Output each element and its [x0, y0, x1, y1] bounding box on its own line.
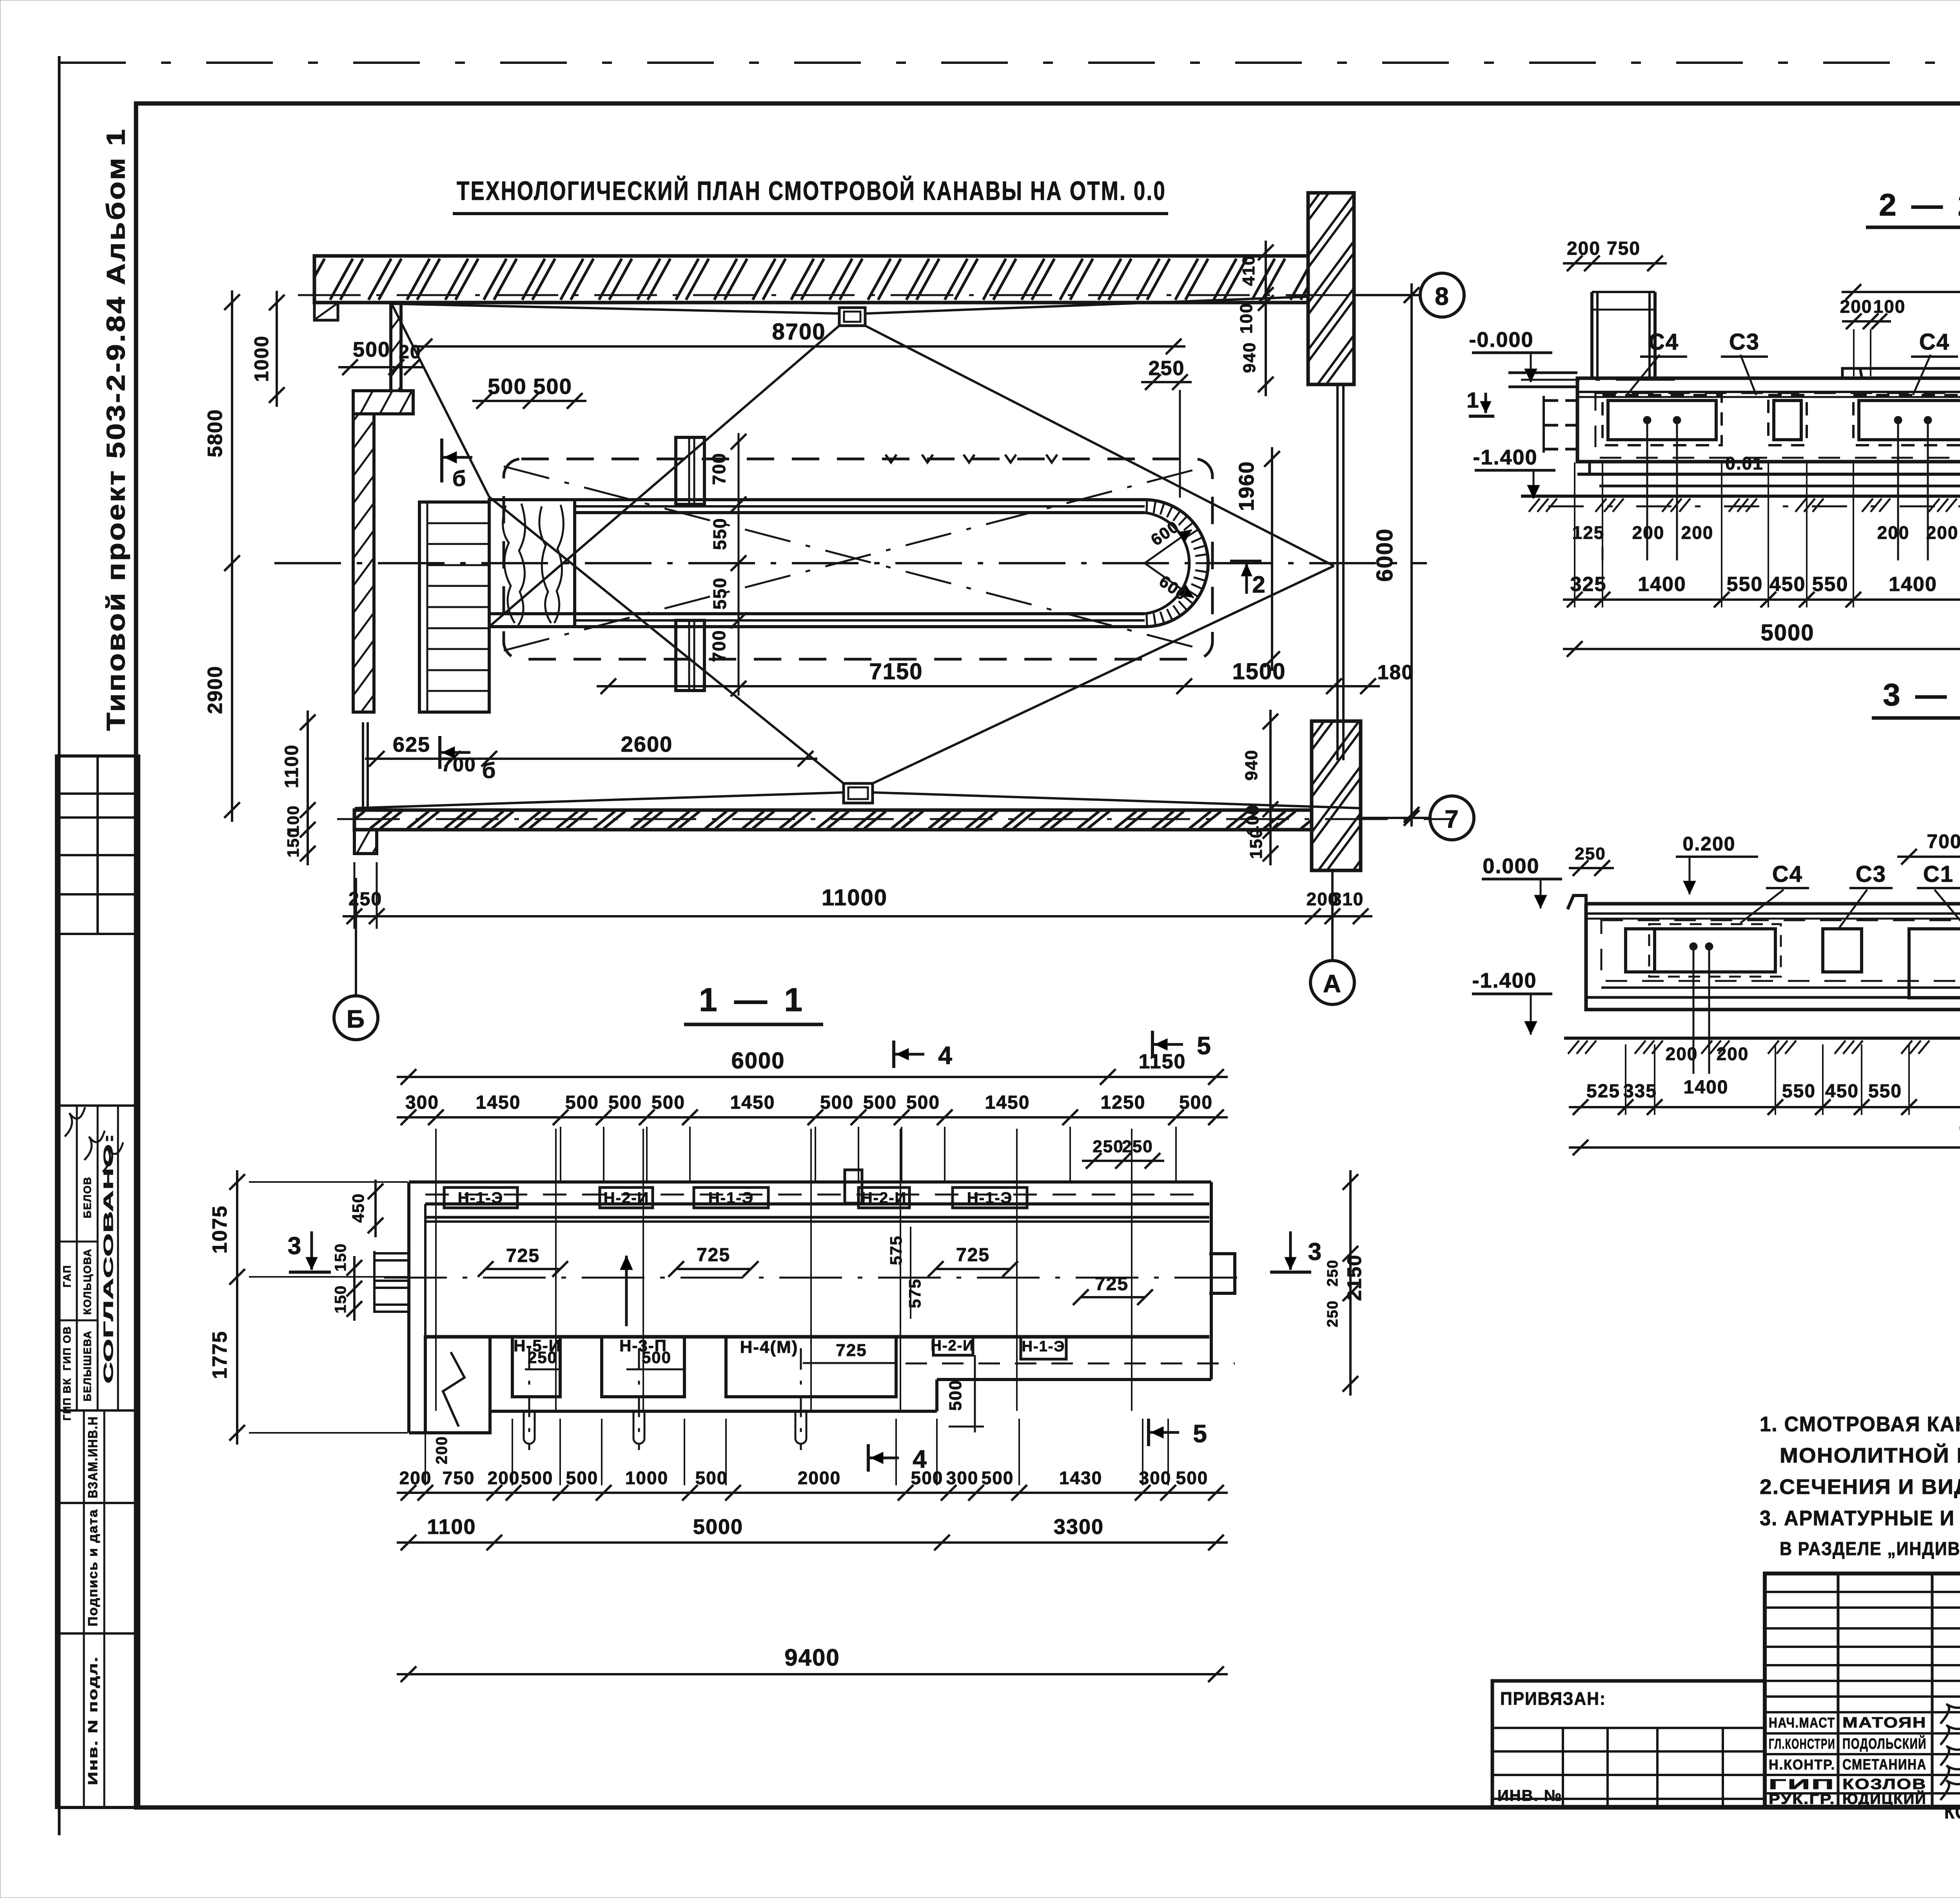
- svg-text:410: 410: [1239, 255, 1258, 286]
- section 3-3 opening 1400: [1655, 929, 1775, 972]
- svg-text:ГИП: ГИП: [1769, 1776, 1835, 1792]
- svg-text:200: 200: [399, 1468, 432, 1488]
- svg-text:550: 550: [1812, 573, 1849, 596]
- section 1-1 mid pipe: [845, 1170, 862, 1203]
- svg-text:Н-1-Э: Н-1-Э: [1022, 1338, 1065, 1355]
- svg-text:150: 150: [332, 1243, 349, 1272]
- svg-text:1150: 1150: [1139, 1050, 1186, 1073]
- svg-text:НАЧ.МАСТ: НАЧ.МАСТ: [1769, 1715, 1835, 1731]
- svg-text:1 — 1: 1 — 1: [699, 981, 806, 1018]
- svg-text:-1.400: -1.400: [1472, 969, 1537, 992]
- svg-text:МОНОЛИТНОЙ ИЗ БЕТОНА М 200.: МОНОЛИТНОЙ ИЗ БЕТОНА М 200.: [1780, 1443, 1960, 1467]
- section 1-1 dims 250 250: [1082, 1160, 1164, 1162]
- svg-text:500: 500: [1176, 1468, 1209, 1488]
- svg-text:ТЕХНОЛОГИЧЕСКИЙ ПЛАН СМОТРОВ: ТЕХНОЛОГИЧЕСКИЙ ПЛАН СМОТРОВОЙ КАНАВЫ НА…: [457, 176, 1166, 206]
- svg-text:200: 200: [433, 1436, 450, 1465]
- svg-text:625: 625: [393, 733, 430, 756]
- svg-text:Н.КОНТР.: Н.КОНТР.: [1769, 1757, 1835, 1773]
- plan: v-marks on dashed line: [886, 455, 897, 462]
- svg-text:725: 725: [506, 1245, 540, 1266]
- left strip signatures: [65, 1107, 85, 1137]
- plan: dashed pit outline: [504, 459, 1212, 659]
- section 2-2 body outline: [1577, 378, 1960, 462]
- svg-text:2.СЕЧЕНИЯ И ВИДЫ 4-4 ÷ 10: 2.СЕЧЕНИЯ И ВИДЫ 4-4 ÷ 10 -10 ДАНЫ НА ЛИ…: [1760, 1475, 1960, 1499]
- svg-text:0.000: 0.000: [1483, 854, 1539, 878]
- section 1-1 left dims 450/150/150: [374, 1180, 377, 1237]
- section 3-3 witness lines: [1625, 1044, 1626, 1115]
- svg-text:100: 100: [1873, 296, 1906, 317]
- svg-text:1450: 1450: [730, 1092, 775, 1113]
- section 1-1 hanging block H-3-P: [602, 1337, 684, 1397]
- svg-text:5800: 5800: [204, 409, 227, 457]
- svg-text:2900: 2900: [204, 665, 227, 714]
- section 1-1 left stub pipes: [373, 1252, 409, 1254]
- plan: section marker b top: [440, 439, 443, 482]
- section 1-1 marker 4 bottom: [867, 1444, 870, 1472]
- svg-text:200: 200: [1567, 238, 1601, 259]
- section 3-3 dim 250 left: [1569, 867, 1614, 869]
- svg-text:ПОДОЛЬСКИЙ: ПОДОЛЬСКИЙ: [1842, 1735, 1927, 1752]
- svg-text:2 — 2: 2 — 2: [1879, 187, 1960, 222]
- svg-text:0.01: 0.01: [1725, 453, 1764, 473]
- section 1-1 hanging block H-5-I: [512, 1337, 560, 1397]
- svg-text:450: 450: [1825, 1081, 1859, 1102]
- plan: left dims 1100/100/150: [307, 711, 309, 865]
- sheet left edge: [58, 56, 61, 1835]
- svg-text:500: 500: [695, 1468, 728, 1488]
- svg-text:С4: С4: [1772, 861, 1803, 887]
- svg-text:Подпись и дата: Подпись и дата: [85, 1509, 100, 1626]
- svg-text:Н-1-Э: Н-1-Э: [967, 1189, 1013, 1207]
- svg-text:1450: 1450: [985, 1092, 1030, 1113]
- svg-text:5: 5: [1193, 1419, 1208, 1448]
- section 3-3 anchor dots: [1690, 943, 1697, 950]
- svg-text:575: 575: [887, 1235, 905, 1265]
- svg-text:ГАП: ГАП: [61, 1265, 73, 1287]
- svg-text:1000: 1000: [250, 335, 272, 382]
- svg-text:725: 725: [697, 1245, 730, 1265]
- plan: right double line wall gap: [1336, 384, 1339, 760]
- section 1-1 marker 3 left: [289, 1271, 331, 1274]
- section 3-3 opening 450: [1823, 929, 1862, 972]
- svg-text:5000: 5000: [1760, 620, 1814, 645]
- section 1-1 bottom dim row 1100/5000/3300: [397, 1541, 1228, 1544]
- plan: niche dimension line 700/550/550/700: [738, 433, 740, 696]
- section 2-2 base slab: [1588, 462, 1591, 474]
- svg-text:Инв. N подл.: Инв. N подл.: [85, 1656, 100, 1785]
- section 1-1 marker 5 bottom: [1147, 1419, 1150, 1446]
- svg-text:180: 180: [1377, 661, 1414, 684]
- svg-text:Б: Б: [347, 1005, 365, 1033]
- section 1-1 right notch: [1209, 1254, 1235, 1293]
- section 1-1 left dims 1075/1775: [236, 1170, 238, 1445]
- svg-text:200: 200: [1877, 522, 1910, 543]
- top dash-dot border: [59, 62, 1960, 64]
- svg-text:200: 200: [1632, 522, 1665, 543]
- section 3-3 big opening 1950: [1909, 929, 1960, 998]
- svg-text:С3: С3: [1856, 861, 1886, 887]
- left strip bottom cells: [56, 1502, 139, 1504]
- svg-text:3. АРМАТУРНЫЕ И ЗАКЛАДНЫЕ ИЗ: 3. АРМАТУРНЫЕ И ЗАКЛАДНЫЕ ИЗДЕЛИЯ ДАНЫ В…: [1760, 1506, 1960, 1530]
- svg-text:1. СМОТРОВАЯ КАНАВА ДЛЯ РАБ: 1. СМОТРОВАЯ КАНАВА ДЛЯ РАБОТ ТИПА ЕО - …: [1760, 1412, 1960, 1436]
- svg-text:1500: 1500: [1232, 659, 1286, 684]
- svg-text:2150: 2150: [1343, 1254, 1365, 1301]
- plan: left door stub: [362, 722, 364, 807]
- section 1-1 centerline: [384, 1277, 1247, 1279]
- section 3-3 body outline: [1586, 894, 1960, 1010]
- svg-text:550: 550: [710, 577, 730, 610]
- section 1-1 top dim row2: [397, 1116, 1228, 1118]
- plan: channel centerline: [274, 562, 1427, 564]
- plan: grid circle B: [334, 996, 378, 1040]
- svg-text:500: 500: [820, 1092, 854, 1113]
- plan: grid circle 8: [1420, 273, 1464, 317]
- svg-text:500: 500: [642, 1348, 671, 1367]
- svg-text:4: 4: [938, 1041, 953, 1070]
- svg-text:-1.400: -1.400: [1473, 446, 1537, 469]
- svg-text:750: 750: [443, 1468, 475, 1488]
- svg-text:525: 525: [1586, 1081, 1620, 1102]
- section 2-2 top dims 200 750: [1563, 262, 1667, 265]
- plan: left wall top L-piece: [353, 303, 413, 414]
- svg-text:725: 725: [836, 1341, 867, 1360]
- section 1-1 top blocks: [444, 1187, 517, 1208]
- svg-text:ЮДИЦКИЙ: ЮДИЦКИЙ: [1842, 1790, 1927, 1807]
- svg-text:550: 550: [710, 518, 730, 550]
- plan: top niche 700: [676, 437, 704, 504]
- plan: right small dims 410/100/940: [1265, 241, 1267, 396]
- svg-text:500: 500: [488, 374, 526, 399]
- svg-text:125: 125: [1572, 522, 1605, 543]
- plan: pit channel outer walls: [489, 498, 1145, 501]
- section 3-3 left top hook: [1568, 896, 1586, 920]
- svg-text:С4: С4: [1648, 329, 1679, 355]
- section 2-2 left floor lines: [1508, 372, 1577, 374]
- svg-text:РУК.ГР.: РУК.ГР.: [1769, 1791, 1835, 1807]
- plan: dimension 250 right: [1141, 381, 1192, 383]
- section 1-1 marker 3 right: [1270, 1271, 1311, 1274]
- svg-text:700: 700: [441, 754, 476, 776]
- svg-text:500: 500: [566, 1468, 599, 1488]
- section 2-2 dim 5900: [1842, 291, 1960, 293]
- svg-text:Н-1-Э: Н-1-Э: [708, 1189, 754, 1207]
- svg-text:С3: С3: [1729, 329, 1760, 355]
- svg-text:4: 4: [913, 1445, 927, 1473]
- section 2-2 left embed symbol: [1543, 399, 1577, 402]
- svg-text:500: 500: [906, 1092, 940, 1113]
- section 1-1 dashed top line: [425, 1194, 1209, 1196]
- section 3-3 inner dashed liner: [1601, 920, 1960, 981]
- plan: top wall left step: [314, 303, 338, 320]
- svg-text:200: 200: [1717, 1044, 1749, 1064]
- svg-text:9400: 9400: [784, 1644, 840, 1671]
- svg-text:КОЗЛОВ: КОЗЛОВ: [1842, 1776, 1927, 1793]
- svg-text:СМЕТАНИНА: СМЕТАНИНА: [1842, 1757, 1927, 1773]
- section 2-2 top step mid: [1842, 368, 1862, 378]
- svg-text:1400: 1400: [1638, 573, 1686, 596]
- svg-text:1775: 1775: [209, 1331, 231, 1379]
- title block main frame: [1765, 1574, 1960, 1807]
- svg-text:1100: 1100: [281, 744, 302, 788]
- svg-text:500: 500: [608, 1092, 642, 1113]
- svg-text:Н-4(М): Н-4(М): [740, 1338, 799, 1357]
- plan: top-right pillar hatched: [1308, 193, 1354, 384]
- svg-text:8700: 8700: [772, 319, 826, 344]
- svg-text:БЕЛЫШЕВА: БЕЛЫШЕВА: [82, 1330, 93, 1401]
- privyazan table: [1492, 1681, 1765, 1807]
- section 3-3 ground line and hatch: [1564, 1037, 1960, 1040]
- plan: dimension 500/20 top-left: [338, 366, 424, 368]
- svg-text:750: 750: [1607, 238, 1641, 259]
- left strip table: [56, 756, 139, 1807]
- section 3-3 dims 700/100/200/475/1025: [1897, 856, 1960, 858]
- section 1-1 marker 5 top: [1151, 1031, 1154, 1058]
- svg-text:20: 20: [399, 342, 421, 363]
- section 1-1 body outline: [409, 1180, 1211, 1184]
- svg-text:ГИП ОВ: ГИП ОВ: [61, 1326, 73, 1370]
- svg-text:-0.000: -0.000: [1469, 328, 1534, 352]
- svg-text:БЕЛОВ: БЕЛОВ: [82, 1177, 93, 1218]
- svg-text:700: 700: [709, 453, 729, 485]
- svg-text:200: 200: [1840, 296, 1873, 317]
- svg-text:725: 725: [1095, 1274, 1129, 1294]
- section 2-2 opening C4-2: [1859, 401, 1960, 440]
- section 2-2 dims 200 100: [1842, 320, 1891, 323]
- svg-text:3300: 3300: [1054, 1515, 1104, 1539]
- svg-text:200: 200: [1926, 522, 1959, 543]
- svg-text:500: 500: [565, 1092, 599, 1113]
- svg-text:0.200: 0.200: [1682, 833, 1735, 855]
- svg-text:ГИП ВК: ГИП ВК: [61, 1378, 73, 1421]
- section 2-2 opening C4-1: [1608, 401, 1716, 440]
- svg-text:300: 300: [946, 1468, 979, 1488]
- plan: bottom dim 11000 row: [343, 915, 1372, 917]
- svg-text:575: 575: [906, 1278, 924, 1308]
- svg-text:325: 325: [1570, 573, 1607, 596]
- plan: bottom wall hatched band: [354, 810, 1312, 830]
- section 2-2 ground line and hatch: [1521, 495, 1960, 498]
- svg-text:Н-1-Э: Н-1-Э: [458, 1189, 503, 1207]
- svg-text:3: 3: [288, 1233, 302, 1260]
- section 1-1 bottom dim rows: [397, 1492, 1228, 1494]
- svg-text:1075: 1075: [209, 1205, 231, 1254]
- svg-text:МАТОЯН: МАТОЯН: [1842, 1715, 1927, 1731]
- section 1-1 inner top line: [425, 1202, 1209, 1206]
- plan: pit rounded end with tread marks: [1145, 500, 1208, 627]
- svg-text:6000: 6000: [1372, 528, 1397, 582]
- svg-text:500: 500: [533, 374, 572, 399]
- signature table: [1765, 1574, 1960, 1807]
- section 2-2 marker 1 left: [1469, 415, 1494, 418]
- svg-text:5: 5: [1197, 1031, 1212, 1060]
- svg-text:КОЛЬЦОВА: КОЛЬЦОВА: [82, 1248, 93, 1315]
- plan: section marker b bottom: [438, 736, 441, 769]
- svg-text:700: 700: [1927, 830, 1960, 852]
- section 2-2 bottom dims row3: [1563, 648, 1960, 650]
- section 2-2 ground dash pattern: [1548, 506, 1960, 508]
- svg-text:Типовой проект 503-2-9.84 А: Типовой проект 503-2-9.84 Альбом 1: [101, 127, 130, 731]
- plan: rough concrete area: [489, 500, 575, 627]
- svg-text:ГЛ.КОНСТРИ: ГЛ.КОНСТРИ: [1769, 1736, 1835, 1752]
- svg-text:КОПИРОВАЛ:: КОПИРОВАЛ:: [1944, 1801, 1960, 1823]
- section 1-1 hanging block H-4M: [726, 1337, 896, 1397]
- plan: dash-dot floor diagonals: [504, 466, 1207, 651]
- svg-text:940: 940: [1242, 749, 1261, 780]
- plan: right dim 1960: [1271, 447, 1273, 671]
- svg-text:С4: С4: [1919, 329, 1950, 355]
- plan: bottom wall left step: [354, 830, 377, 854]
- section 3-3 opening small left: [1626, 929, 1655, 972]
- svg-text:100: 100: [1237, 303, 1256, 334]
- section 1-1 stairs block: [425, 1337, 490, 1433]
- section 1-1 bottom pins: [528, 1348, 530, 1450]
- svg-text:700: 700: [709, 630, 729, 662]
- section 2-2 opening C3-1: [1774, 401, 1801, 440]
- svg-text:450: 450: [349, 1193, 367, 1223]
- svg-text:725: 725: [956, 1245, 990, 1265]
- svg-text:2: 2: [1252, 571, 1266, 598]
- svg-text:500: 500: [521, 1468, 554, 1488]
- svg-text:б: б: [482, 758, 497, 783]
- section 1-1 right small blocks: [933, 1337, 973, 1355]
- svg-text:1430: 1430: [1059, 1468, 1102, 1488]
- section 3-3 dim 9400: [1569, 1146, 1960, 1149]
- left strip: soglasovano section: [56, 1104, 139, 1107]
- svg-text:940: 940: [1240, 342, 1259, 373]
- svg-text:200: 200: [1666, 1044, 1698, 1064]
- svg-text:150: 150: [332, 1285, 349, 1314]
- svg-text:550: 550: [1727, 573, 1763, 596]
- svg-text:300: 300: [405, 1092, 439, 1113]
- section 1-1 bottom floor line: [490, 1410, 937, 1413]
- plan: left dims 1000/5800/2900: [276, 291, 278, 407]
- plan: bottom niche 700: [676, 620, 704, 691]
- svg-text:450: 450: [1769, 573, 1806, 596]
- section 3-3 bottom dims row: [1569, 1106, 1960, 1108]
- plan: dimension 7150/1500/180: [597, 685, 1380, 687]
- svg-text:250: 250: [1122, 1137, 1153, 1156]
- svg-text:500: 500: [982, 1468, 1014, 1488]
- svg-text:ВЗАМ.ИНВ.Н: ВЗАМ.ИНВ.Н: [85, 1416, 100, 1498]
- section 1-1 witness lines: [435, 1129, 437, 1411]
- plan: top wall centerline: [298, 294, 1354, 296]
- svg-text:8: 8: [1435, 282, 1450, 310]
- section 1-1 up arrow: [625, 1256, 628, 1326]
- svg-text:250: 250: [1325, 1300, 1341, 1327]
- svg-text:550: 550: [1868, 1081, 1902, 1102]
- svg-text:1450: 1450: [476, 1092, 521, 1113]
- svg-text:3: 3: [1308, 1238, 1322, 1265]
- plan: vertical dim 6000: [1410, 283, 1413, 827]
- section 1-1 marker 4 top: [892, 1041, 895, 1068]
- plan: stairs: [419, 502, 489, 712]
- svg-text:А: А: [1323, 970, 1342, 998]
- svg-text:2600: 2600: [621, 732, 673, 756]
- plan: bottom-right pillar hatched: [1312, 721, 1361, 870]
- svg-text:150: 150: [284, 828, 302, 857]
- svg-text:200: 200: [1681, 522, 1714, 543]
- svg-text:1100: 1100: [427, 1515, 476, 1539]
- plan: dimension 8700: [413, 345, 1185, 348]
- svg-text:5000: 5000: [693, 1515, 743, 1539]
- plan: dimensions 500 500 stairs: [472, 400, 586, 402]
- svg-text:1000: 1000: [625, 1468, 668, 1488]
- svg-text:11000: 11000: [822, 885, 887, 910]
- plan: right dims 940/100/150 bottom: [1269, 710, 1272, 865]
- plan: floor drain bottom: [844, 783, 873, 803]
- svg-text:6000: 6000: [731, 1048, 785, 1073]
- section 2-2 chimney: [1590, 292, 1593, 378]
- svg-text:250: 250: [528, 1348, 557, 1367]
- svg-text:7150: 7150: [869, 659, 923, 684]
- svg-text:ПРИВЯЗАН:: ПРИВЯЗАН:: [1500, 1688, 1606, 1709]
- svg-text:250: 250: [1149, 357, 1185, 380]
- plan: top wall hatched band: [314, 256, 1308, 303]
- svg-text:1960: 1960: [1235, 461, 1258, 511]
- svg-text:310: 310: [1332, 889, 1364, 909]
- svg-text:250: 250: [1575, 844, 1606, 863]
- svg-text:Н-2-И: Н-2-И: [931, 1338, 974, 1354]
- plan: bottom wall centerline: [337, 818, 1450, 820]
- svg-text:250: 250: [1325, 1259, 1341, 1286]
- svg-text:335: 335: [1623, 1081, 1657, 1102]
- section 1-1 right dims 2150/250/250: [1349, 1170, 1352, 1396]
- svg-text:150: 150: [1247, 828, 1266, 859]
- svg-text:Н-2-И: Н-2-И: [604, 1189, 650, 1207]
- svg-text:С1: С1: [1923, 861, 1954, 887]
- svg-text:500: 500: [353, 338, 390, 361]
- svg-text:7: 7: [1445, 805, 1459, 833]
- svg-text:550: 550: [1782, 1081, 1816, 1102]
- svg-text:В РАЗДЕЛЕ „ИНДИВИДУАЛЬНЫЕ ИЗДЕ: В РАЗДЕЛЕ „ИНДИВИДУАЛЬНЫЕ ИЗДЕЛИЯ ЗАВОДС…: [1780, 1539, 1960, 1559]
- svg-text:1250: 1250: [1101, 1092, 1146, 1113]
- section 1-1 top dim 6000/1150 and markers: [397, 1076, 1228, 1078]
- svg-text:2000: 2000: [798, 1468, 841, 1488]
- section 1-1 dim 9400: [397, 1673, 1228, 1675]
- svg-text:250: 250: [1093, 1137, 1123, 1156]
- plan: slope diagonals: [391, 304, 839, 314]
- plan: section marker 2: [1230, 560, 1261, 563]
- svg-text:500: 500: [652, 1092, 685, 1113]
- section 2-2 inner dashed liner: [1595, 393, 1960, 458]
- section 1-1 band bottom: [425, 1335, 1209, 1339]
- plan: grid circle A: [1310, 961, 1354, 1004]
- svg-text:б: б: [452, 466, 467, 491]
- svg-text:500: 500: [946, 1380, 965, 1410]
- svg-text:500: 500: [863, 1092, 897, 1113]
- plan: left wall strip: [353, 414, 374, 712]
- plan: grid circle 7: [1430, 796, 1474, 840]
- section 2-2 anchor dots and leaders: [1643, 416, 1651, 424]
- svg-text:1400: 1400: [1889, 573, 1937, 596]
- svg-text:1: 1: [1466, 388, 1479, 412]
- svg-text:200: 200: [488, 1468, 520, 1488]
- plan: dimension 2600 row: [365, 758, 817, 760]
- plan: floor drain top: [839, 308, 865, 326]
- svg-text:1400: 1400: [1684, 1077, 1729, 1098]
- svg-text:300: 300: [1139, 1468, 1172, 1488]
- svg-text:500: 500: [1179, 1092, 1213, 1113]
- section 2-2 bottom dims row2: [1563, 598, 1960, 601]
- svg-text:3 — 3: 3 — 3: [1883, 677, 1960, 712]
- svg-text:ИНВ. №: ИНВ. №: [1497, 1787, 1562, 1804]
